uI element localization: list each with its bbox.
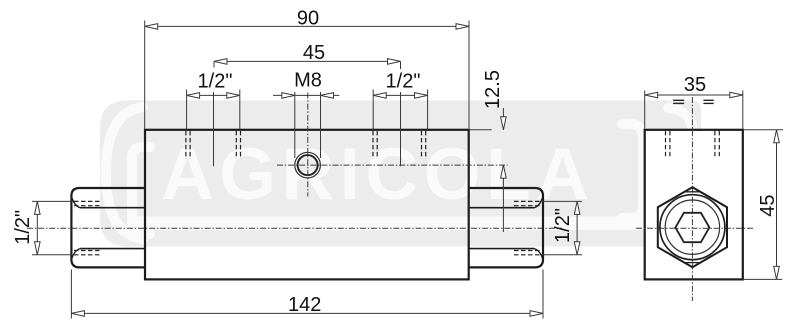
M8 extension lines xyxy=(294,92,296,158)
svg-text:90: 90 xyxy=(297,8,319,30)
dim 45r extension lines xyxy=(743,129,783,131)
dim 142 line xyxy=(71,312,543,314)
left half-inch dim line xyxy=(36,201,38,254)
dim 90 extension lines xyxy=(144,21,146,129)
dim 45 line xyxy=(214,60,401,62)
M8 vertical centerline xyxy=(307,93,309,197)
dim 12.5 line upper xyxy=(502,108,504,130)
right port centerline xyxy=(400,92,402,166)
svg-text:M8: M8 xyxy=(294,70,322,92)
right hex stub outline xyxy=(469,188,543,267)
watermark right brackets xyxy=(622,108,693,238)
left stub thread dashed lines xyxy=(74,200,100,202)
allen socket hexagon xyxy=(675,213,709,242)
right port extension lines xyxy=(372,90,374,130)
hex nut polygon xyxy=(658,187,727,267)
M8 dim arrows xyxy=(273,94,295,96)
right stub thread dashed lines xyxy=(514,200,540,202)
right port dim line xyxy=(373,94,427,96)
watermark underline stripe xyxy=(134,217,659,231)
left hex stub outline xyxy=(71,188,145,267)
right half-inch dim line xyxy=(576,201,578,254)
dim 12.5 top extension xyxy=(469,129,492,131)
svg-text:45: 45 xyxy=(757,194,779,216)
end view port hidden lines xyxy=(665,131,667,156)
svg-text:1/2": 1/2" xyxy=(198,70,233,92)
M8 horizontal centerline xyxy=(277,164,508,166)
dim 45r line xyxy=(776,130,778,280)
dim 90 line xyxy=(145,25,469,27)
main body outline xyxy=(145,130,469,280)
end view vertical centerline xyxy=(691,97,693,301)
right hex chamfer arcs xyxy=(534,198,542,259)
svg-text:12.5: 12.5 xyxy=(482,70,504,109)
svg-text:1/2": 1/2" xyxy=(386,70,421,92)
svg-text:1/2": 1/2" xyxy=(12,210,34,245)
left hex stub flats xyxy=(80,207,145,209)
left port extension lines xyxy=(186,90,188,130)
right port hidden thread lines xyxy=(372,131,374,159)
hex nut chamfer chords xyxy=(684,191,700,193)
svg-text:35: 35 xyxy=(684,74,706,96)
dim 35 line xyxy=(645,94,743,96)
left half-inch extension lines xyxy=(32,200,72,202)
M8 hole outer circle xyxy=(295,152,321,178)
end view horizontal centerline xyxy=(636,227,753,229)
watermark left brackets xyxy=(106,107,150,239)
dim 35 extension lines xyxy=(644,91,646,129)
left port dim line xyxy=(187,94,240,96)
hex outer circle xyxy=(660,195,725,260)
watermark badge xyxy=(100,100,701,246)
M8 hole inner circle xyxy=(298,155,318,175)
dim 45 stub extensions xyxy=(213,61,215,67)
right hex stub flats xyxy=(469,207,535,209)
right half-inch extension lines xyxy=(540,200,582,202)
svg-text:142: 142 xyxy=(288,294,321,316)
end view M8 hidden marks xyxy=(673,99,684,101)
left port hidden thread lines xyxy=(185,131,187,159)
svg-text:1/2": 1/2" xyxy=(552,208,574,243)
dim 142 extension lines xyxy=(70,270,72,319)
svg-text:45: 45 xyxy=(303,42,325,64)
left hex chamfer arcs xyxy=(72,198,80,259)
dim 12.5 line lower xyxy=(502,165,504,232)
left port centerline xyxy=(213,92,215,166)
hex inner circle xyxy=(665,200,719,254)
axis centerline xyxy=(27,227,562,229)
end view outline xyxy=(645,130,743,280)
